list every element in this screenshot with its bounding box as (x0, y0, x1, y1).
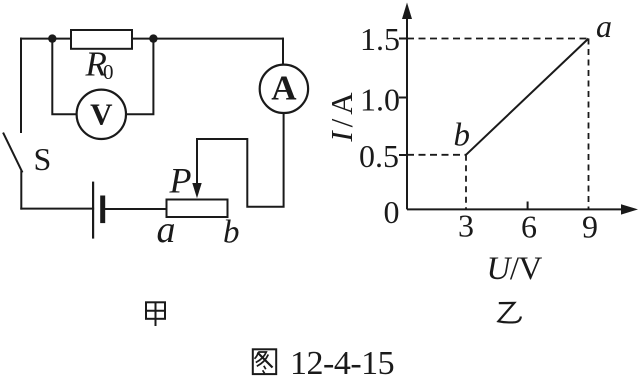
wire bottom horizontal to battery (21, 208, 93, 210)
dashed guide U=9 below point a (588, 39, 590, 210)
svg-text:0: 0 (384, 194, 400, 230)
svg-text:6: 6 (521, 209, 537, 245)
y-axis tick 1.5 (399, 38, 407, 40)
wire top horizontal from resistor to top-right corner (132, 38, 283, 40)
node junction right (149, 34, 157, 42)
x-axis tick 6 (527, 202, 529, 210)
rheostat body a-b (167, 200, 228, 218)
wire left vertical down to switch (20, 39, 22, 132)
svg-text:U/V: U/V (487, 251, 543, 287)
svg-text:a: a (157, 209, 176, 251)
wire battery to rheostat (103, 208, 167, 210)
dashed guide 1.5 level to point a (407, 38, 589, 40)
svg-text:P: P (169, 161, 192, 201)
rheostat slider arrowhead P (192, 183, 201, 198)
dashed guide U=3 below point b (465, 155, 467, 210)
battery short plate (100, 198, 105, 221)
svg-text:3: 3 (458, 208, 474, 244)
svg-text:1.0: 1.0 (360, 81, 400, 117)
ammeter U2 circle (260, 65, 308, 113)
svg-text:V: V (90, 97, 113, 132)
svg-text:9: 9 (582, 209, 598, 245)
wire switch bottom vertical (20, 172, 22, 209)
wire ammeter top stub (282, 39, 284, 65)
wire slider to ammeter (197, 113, 284, 207)
voltmeter U1 circle (77, 90, 126, 139)
caption jia (Chinese glyph drawn as strokes) (146, 302, 165, 326)
wire voltmeter left branch (52, 39, 76, 115)
resistor R0 (71, 30, 132, 49)
svg-text:0.5: 0.5 (359, 138, 399, 174)
svg-text:A: A (271, 68, 297, 107)
caption yi (Chinese glyph drawn as strokes) (498, 303, 521, 323)
rheostat slider arm wire (196, 139, 198, 185)
I-U characteristic line from b to a (466, 39, 589, 155)
y-axis tick 1.0 (399, 97, 407, 99)
y-axis arrowhead (402, 3, 412, 20)
svg-text:b: b (454, 118, 471, 154)
svg-text:I/A: I/A (324, 88, 359, 142)
switch S blade (4, 134, 23, 172)
svg-text:0: 0 (103, 60, 114, 84)
svg-text:S: S (34, 141, 52, 177)
caption tu (Chinese glyph of figure label) (253, 349, 276, 374)
dashed guide 0.5 level to point b (407, 154, 466, 156)
svg-text:12-4-15: 12-4-15 (290, 345, 394, 377)
svg-text:a: a (596, 8, 612, 44)
wire top-left horizontal from switch branch to resistor (21, 38, 71, 40)
y-axis tick 0.5 (399, 154, 407, 156)
x-axis arrowhead (621, 204, 638, 214)
svg-text:b: b (223, 215, 240, 251)
battery long plate (92, 183, 94, 238)
wire voltmeter right branch (126, 39, 153, 115)
svg-text:1.5: 1.5 (360, 21, 400, 57)
graph: x-axis U/V (407, 208, 628, 210)
graph: y-axis I/A (406, 12, 408, 209)
node junction left (48, 34, 56, 42)
